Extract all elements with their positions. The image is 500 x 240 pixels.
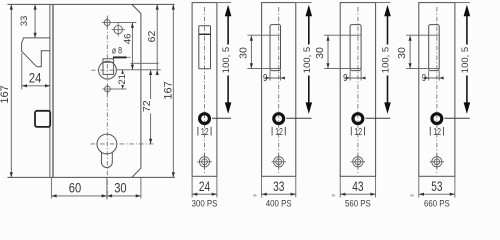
- svg-text:9: 9: [263, 72, 267, 83]
- dim 72: [141, 70, 153, 144]
- dim 21: [117, 70, 128, 89]
- dim 33: [19, 4, 37, 38]
- screw hole top: [104, 20, 110, 26]
- svg-text:62: 62: [146, 31, 158, 43]
- svg-text:560 PS: 560 PS: [345, 198, 371, 209]
- svg-text:100, 5: 100, 5: [381, 47, 392, 73]
- svg-text:30: 30: [237, 47, 249, 59]
- svg-text:53: 53: [431, 179, 443, 195]
- panel 400 PS screw hole: [271, 155, 286, 170]
- svg-text:9: 9: [343, 72, 347, 83]
- panel 300 PS dim 100.5: [212, 3, 232, 119]
- svg-text:167: 167: [163, 81, 175, 99]
- svg-text:660 PS: 660 PS: [424, 198, 450, 209]
- wire follower centerline: [92, 69, 119, 71]
- panel 660 PS plate: [419, 3, 455, 177]
- panel 660 PS dim 30: [396, 35, 439, 68]
- panel 400 PS speck: [253, 194, 256, 196]
- dim 24 latch: [22, 53, 50, 89]
- label o8 underline mark: [113, 56, 127, 58]
- svg-text:30: 30: [314, 47, 326, 59]
- panel 300 PS screw hole: [197, 155, 212, 170]
- svg-text:30: 30: [396, 47, 408, 59]
- svg-text:100, 5: 100, 5: [302, 47, 313, 73]
- panel 660 PS dim 100.5: [444, 3, 471, 119]
- panel 400 PS plate: [262, 3, 296, 177]
- svg-text:30: 30: [114, 180, 126, 195]
- svg-text:12: 12: [201, 126, 209, 138]
- panel 400 PS cylinder circle: [274, 114, 284, 124]
- svg-text:43: 43: [352, 179, 364, 195]
- panel 660 PS dim 9: [422, 71, 444, 84]
- panel 400 PS centerline: [278, 7, 280, 173]
- vertical centerline: [106, 16, 108, 200]
- panel 560 PS dim 30: [314, 35, 361, 68]
- panel 300 PS centerline: [204, 7, 206, 173]
- dim 46: [122, 23, 134, 70]
- dim 167 right: [163, 4, 175, 177]
- svg-text:72: 72: [141, 100, 153, 112]
- panel 560 PS label: [345, 198, 371, 209]
- svg-text:24: 24: [199, 179, 211, 195]
- svg-text:60: 60: [69, 181, 81, 196]
- screw hole upper-right: [114, 26, 122, 34]
- svg-text:24: 24: [29, 70, 41, 85]
- svg-text:12: 12: [433, 126, 441, 138]
- wire hole1 extension: [113, 22, 137, 24]
- panel 660 PS latch cutout: [429, 25, 440, 71]
- panel 660 PS dim 12: [430, 126, 443, 138]
- svg-text:33: 33: [19, 16, 30, 27]
- svg-text:46: 46: [122, 34, 133, 45]
- dim 167 left: [0, 4, 13, 177]
- deadbolt: [35, 111, 50, 127]
- panel 560 PS dim 100.5: [365, 3, 391, 119]
- svg-text:12: 12: [275, 126, 283, 138]
- panel 300 PS latch cutout: [199, 26, 211, 69]
- panel 400 PS label: [266, 198, 292, 209]
- label o8: [112, 45, 123, 55]
- wire square-top extension: [131, 62, 159, 64]
- svg-text:167: 167: [0, 85, 11, 103]
- panel 400 PS dim 9: [263, 71, 285, 84]
- dim 30 bottom: [107, 177, 141, 198]
- panel 400 PS dim 12: [272, 126, 285, 138]
- svg-text:21: 21: [117, 74, 128, 85]
- panel 400 PS dim 100.5: [286, 3, 313, 119]
- panel 400 PS width dim: [262, 176, 296, 197]
- panel 660 PS width dim: [419, 176, 455, 197]
- panel 300 PS cylinder circle: [200, 114, 210, 124]
- panel 300 PS width dim: [192, 176, 217, 197]
- wire hole3 extension: [112, 88, 126, 90]
- panel 400 PS dim 30: [237, 35, 280, 68]
- follower circle: [99, 61, 117, 79]
- svg-text:300 PS: 300 PS: [192, 198, 218, 209]
- panel 660 PS screw hole: [430, 155, 445, 170]
- panel 560 PS dim 9: [343, 71, 365, 84]
- cylinder hole: [97, 134, 117, 167]
- svg-text:ø 8: ø 8: [112, 45, 123, 55]
- panel 560 PS plate: [340, 3, 375, 177]
- svg-text:33: 33: [273, 179, 285, 195]
- wire cylinder centerline: [91, 143, 156, 145]
- svg-text:9: 9: [422, 72, 426, 83]
- wire follower extension right: [117, 69, 161, 71]
- panel 400 PS latch cutout: [270, 25, 281, 71]
- panel 660 PS cylinder circle: [432, 114, 442, 124]
- panel 560 PS speck: [332, 194, 335, 196]
- svg-text:12: 12: [354, 126, 362, 138]
- wire top extension line: [8, 3, 175, 5]
- dim 62: [146, 4, 159, 75]
- panel 300 PS cutout inner line: [199, 33, 211, 35]
- panel 560 PS width dim: [340, 176, 375, 197]
- svg-text:100, 5: 100, 5: [221, 47, 232, 73]
- panel 660 PS centerline: [436, 7, 438, 173]
- panel 560 PS latch cutout: [350, 25, 361, 71]
- dim 60 bottom: [51, 177, 107, 199]
- follower hub: [103, 59, 114, 75]
- panel 560 PS screw hole: [351, 155, 366, 170]
- screw hole middle: [105, 86, 111, 92]
- panel 300 PS plate: [192, 3, 217, 177]
- panel 560 PS dim 12: [351, 126, 364, 138]
- panel 300 PS dim 12: [198, 126, 211, 138]
- faceplate: [50, 4, 53, 177]
- panel 660 PS speck: [410, 194, 413, 196]
- panel 300 PS label: [192, 198, 218, 209]
- panel 660 PS label: [424, 198, 450, 209]
- svg-text:100, 5: 100, 5: [460, 47, 471, 73]
- latch bolt: [22, 38, 51, 67]
- svg-text:400 PS: 400 PS: [266, 198, 292, 209]
- panel 560 PS centerline: [357, 7, 359, 173]
- wire bottom extension line: [8, 176, 175, 178]
- panel 560 PS cylinder circle: [353, 114, 363, 124]
- lock case outline: [132, 4, 141, 177]
